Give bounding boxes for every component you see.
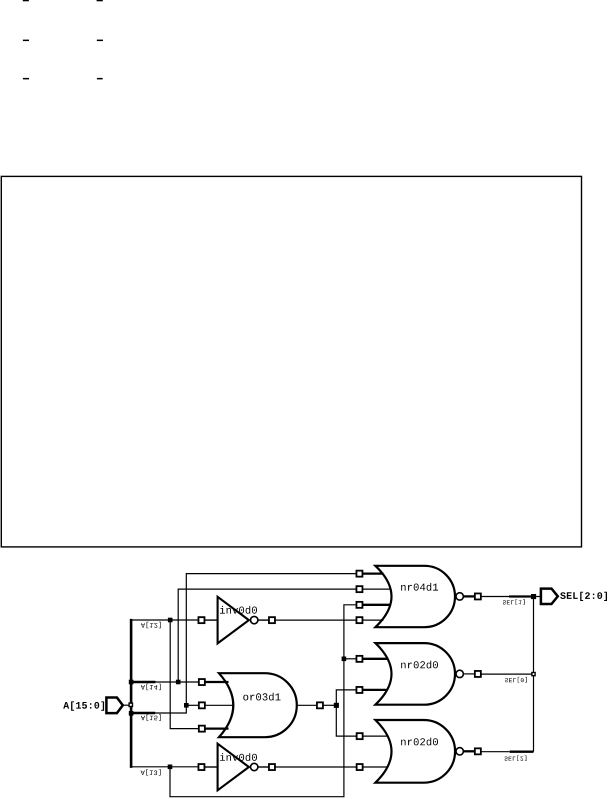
nor-gate U5 label	[401, 661, 438, 669]
wire NOR4 output thin	[481, 596, 509, 598]
pin square OR output	[317, 702, 323, 708]
wire A[14] vertical branch to NOR4 pin2	[178, 589, 356, 682]
pin square port A on bus	[129, 703, 132, 706]
wire NOR2 bottom output thick to SEL corner	[510, 751, 534, 753]
junction OR output fanout	[334, 703, 339, 708]
wire inverter1 output to NOR4 pin4	[275, 619, 356, 621]
nor-gate U4 pin4 stub	[363, 619, 384, 621]
nor-gate U6 output stub thick	[464, 750, 475, 752]
or-gate U3 or03d1	[219, 673, 297, 737]
pin square NOR2 mid output	[475, 671, 481, 677]
input port A[15:0]	[106, 698, 122, 714]
or-gate U3 pin3 stub thick	[205, 727, 228, 729]
wire OR output pin to junction	[323, 704, 336, 706]
junction A[12] split	[168, 618, 173, 623]
nor-gate U6 nr02d0 bottom	[375, 720, 463, 783]
wire inverter2 output to NOR2 bottom pin2	[275, 766, 356, 768]
junction A[15] bus tap	[129, 711, 134, 716]
wire A[14] row to OR top input	[154, 681, 198, 683]
nor-gate U5 output stub	[464, 673, 475, 675]
inverter U1 output stub	[258, 619, 268, 621]
or-gate U3 pin1 stub thick	[205, 681, 228, 683]
net label A[12]	[141, 622, 161, 628]
net label SEL[1]	[503, 599, 525, 605]
wire OR out jog up to NOR2 mid pin2	[336, 690, 356, 705]
junction SEL[1] at port	[531, 594, 536, 599]
pin square inverter U1 input	[198, 617, 204, 623]
junction A[13] to NOR2 mid	[342, 657, 347, 662]
inverter U2 output stub	[258, 766, 268, 768]
wire A[15] vertical branch to NOR4 pin1	[186, 574, 356, 706]
inverter U1 label	[220, 606, 257, 614]
pin square NOR2 mid pin2	[356, 687, 362, 693]
wire A[15] junction to OR middle input	[186, 704, 198, 706]
wire A[15] row jog	[154, 705, 186, 713]
pin square OR pin2	[199, 702, 205, 708]
node SEL vertical bus	[533, 597, 535, 752]
junction A[15] to OR mid	[184, 703, 189, 708]
pin square OR pin1	[199, 679, 205, 685]
pin square NOR2 bottom pin1	[357, 733, 363, 739]
pin square NOR4 pin1	[356, 571, 362, 577]
inverter U1 input stub	[205, 619, 218, 621]
nor-gate U6 label	[401, 738, 438, 746]
pin square NOR2 mid pin1	[356, 656, 362, 662]
empty figure frame rectangle	[1, 176, 581, 547]
inverter U2 inv0d0 bottom	[218, 744, 258, 791]
nor-gate U4 label	[401, 583, 438, 591]
nor-gate U5 pin1 stub thick	[363, 658, 387, 660]
junction SEL[0] on bus	[532, 673, 535, 676]
wire A[12] vertical branch to OR bottom input	[170, 620, 198, 729]
junction A[14] to NOR4 pin2	[176, 680, 181, 685]
port A label text	[63, 701, 104, 710]
pin square NOR4 pin3	[356, 602, 362, 608]
wire OR output	[297, 704, 317, 706]
inverter U2 input stub	[205, 766, 218, 768]
pin square inverter U2 output	[269, 764, 275, 770]
wire A[13] bottom route to NOR4 pin3	[170, 605, 356, 797]
pin square NOR4 pin2	[356, 586, 362, 592]
wire NOR4 output thick into SEL junction	[509, 595, 534, 597]
wire A[13] branch to NOR2 mid pin1	[344, 658, 356, 660]
wire A[13] row to inverter2 input	[130, 766, 198, 768]
nor-gate U4 nr04d1	[375, 566, 463, 627]
nor-gate U4 output stub thick	[464, 595, 475, 597]
wire A[12] row to inverter input	[130, 619, 198, 621]
pin square OR pin3	[199, 726, 205, 732]
port SEL label text	[560, 592, 607, 601]
wire bus tap A[15] thick	[131, 712, 155, 715]
top document dash marks	[23, 0, 103, 79]
junction A[14] bus tap	[129, 680, 134, 685]
net label SEL[0]	[505, 677, 527, 683]
nor-gate U4 pin1 stub thick	[363, 572, 384, 574]
nor-gate U6 pin1 stub	[363, 735, 387, 737]
inverter U1 inv0d0 top	[218, 597, 258, 644]
net label A[15]	[141, 714, 161, 720]
node A bus vertical with corner taps	[130, 619, 133, 768]
wire NOR2 mid output to SEL bus	[481, 673, 533, 675]
nor-gate U4 pin3 stub thick	[363, 604, 391, 606]
pin square NOR4 pin4	[356, 617, 362, 623]
nor-gate U5 pin2 stub thick	[363, 689, 387, 691]
nor-gate U4 pin2 stub	[363, 588, 391, 590]
nor-gate U5 nr02d0 middle	[375, 643, 463, 705]
wire bus tap A[14] thick	[131, 681, 155, 684]
inverter U2 label	[220, 753, 257, 761]
wire SEL junction to port	[535, 596, 541, 598]
net label A[14]	[141, 684, 161, 690]
net label A[13]	[141, 769, 161, 775]
pin square NOR4 output	[475, 593, 481, 599]
pin square NOR2 bottom output	[475, 748, 481, 754]
or-gate U3 label	[243, 693, 280, 701]
pin square inverter U2 input	[198, 764, 204, 770]
net label SEL[2]	[505, 755, 527, 761]
pin square NOR2 bottom pin2	[357, 764, 363, 770]
wire NOR2 bottom output thin	[481, 751, 510, 753]
pin square inverter U1 output	[269, 617, 275, 623]
junction A[13] split	[168, 765, 173, 770]
wire port A to bus	[123, 704, 129, 706]
nor-gate U6 pin2 stub	[363, 766, 387, 768]
or-gate U3 pin2 stub	[205, 704, 232, 706]
wire OR out jog down to NOR2 bottom pin1	[336, 705, 356, 736]
output port SEL[2:0]	[541, 589, 558, 604]
